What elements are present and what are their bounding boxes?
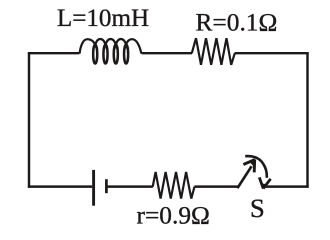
battery cell long plate (positive) xyxy=(92,170,95,206)
inductor L1 loop ellipse 1 xyxy=(93,45,97,64)
switch S xyxy=(237,156,270,189)
switch lever arrowhead xyxy=(243,160,254,173)
wire: bottom between resistor r and switch xyxy=(194,185,238,187)
svg-text:L=10mH: L=10mH xyxy=(57,5,149,32)
battery cell short plate (negative) xyxy=(105,179,108,193)
wire: left vertical xyxy=(28,52,30,188)
inductor L1 coil humps xyxy=(80,39,142,63)
wire: top-left horizontal from left corner to inductor xyxy=(28,52,80,54)
inductor L1 loop ellipse 4 xyxy=(124,45,128,64)
switch motion arc arrowhead xyxy=(259,177,270,188)
wire: bottom-right from switch to right corner xyxy=(264,185,309,187)
switch lever xyxy=(237,166,251,188)
svg-text:r=0.9Ω: r=0.9Ω xyxy=(137,202,210,230)
wire: top middle between inductor and resistor R xyxy=(142,52,193,54)
inductor L1 loop ellipse 3 xyxy=(114,45,118,64)
svg-text:R=0.1Ω: R=0.1Ω xyxy=(196,9,278,37)
svg-text:S: S xyxy=(250,193,265,223)
wire: right vertical xyxy=(306,52,308,188)
switch motion arc xyxy=(245,156,267,178)
wire: bottom between battery and resistor r xyxy=(108,185,153,187)
resistor r zigzag xyxy=(153,172,195,199)
inductor L1 loop ellipse 2 xyxy=(103,45,107,64)
resistor R zigzag xyxy=(192,38,235,65)
wire: bottom-left from left corner to battery xyxy=(28,185,92,187)
wire: top-right horizontal from R to right corner xyxy=(235,52,309,54)
